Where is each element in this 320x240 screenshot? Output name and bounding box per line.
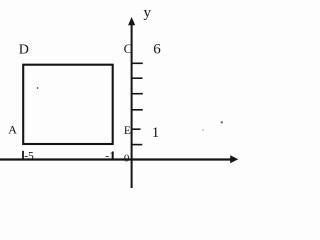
svg-text:C: C <box>124 41 133 56</box>
scan speck <box>221 121 223 123</box>
x-axis tick -1 <box>112 152 114 161</box>
svg-text:E: E <box>124 125 131 137</box>
svg-text:0: 0 <box>124 152 130 164</box>
rectangle ADCE <box>23 65 113 144</box>
y-axis tick 6 <box>131 62 143 64</box>
y-axis tick 4 <box>131 93 143 95</box>
svg-text:1: 1 <box>152 125 160 141</box>
x-axis <box>0 158 233 160</box>
y-axis <box>131 23 133 188</box>
scan speck <box>202 129 204 131</box>
y-axis arrowhead <box>128 17 135 25</box>
svg-text:y: y <box>144 5 152 21</box>
y-axis tick 1 <box>131 144 142 146</box>
x-axis tick -5 <box>22 151 24 160</box>
y-axis tick 2 (at E) <box>131 128 141 130</box>
svg-text:6: 6 <box>153 42 161 58</box>
y-axis tick 3 <box>131 109 143 111</box>
svg-text:-5: -5 <box>24 150 34 162</box>
svg-text:-1: -1 <box>105 151 115 163</box>
scan speck inside rectangle <box>37 87 39 89</box>
y-axis tick 5 <box>131 77 143 79</box>
svg-text:A: A <box>8 122 17 136</box>
svg-text:D: D <box>19 43 29 58</box>
x-axis arrowhead <box>230 155 238 163</box>
